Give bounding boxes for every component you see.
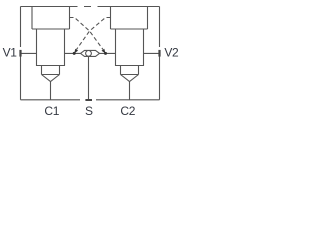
svg-text:C1: C1 [44,104,59,118]
svg-text:V2: V2 [164,46,179,60]
svg-text:C2: C2 [120,104,135,118]
svg-text:V1: V1 [3,46,18,60]
svg-text:S: S [85,104,93,118]
